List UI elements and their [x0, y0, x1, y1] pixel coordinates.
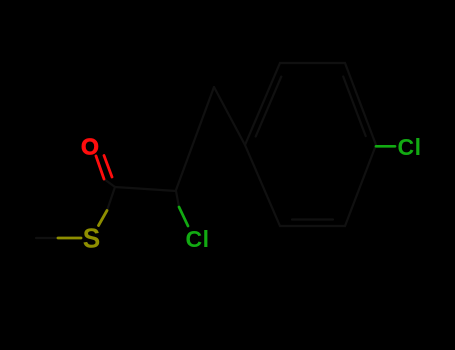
ring inner double bond lines — [256, 77, 282, 137]
svg-text:S: S — [83, 223, 101, 254]
wire: benzylic C to ring ipso carbon — [214, 87, 245, 145]
wire: S-CH3 bond carbon half (methyl C1') — [36, 87, 245, 238]
double bond C=O (red lines) — [96, 156, 112, 180]
wire: ring-Cl green half bond — [376, 145, 395, 148]
wire: S to carbonyl C dark half — [107, 187, 115, 211]
svg-text:O: O — [81, 134, 99, 160]
wire: C=O main line dark stub near carbonyl C — [104, 179, 115, 187]
wire: carbonyl C to alpha C bond — [115, 187, 176, 191]
wire: alpha C to benzylic C chain (two collinear bonds) — [176, 87, 214, 190]
wire: CH3-S olive half + S-C(=O) olive half — [58, 211, 107, 239]
wire: alpha C-Cl green half — [179, 207, 188, 226]
benzene ring C6H4 — [245, 63, 376, 226]
svg-text:Cl: Cl — [186, 226, 210, 252]
wire: alpha C to Cl dark half — [176, 191, 179, 207]
svg-text:Cl: Cl — [398, 134, 422, 160]
